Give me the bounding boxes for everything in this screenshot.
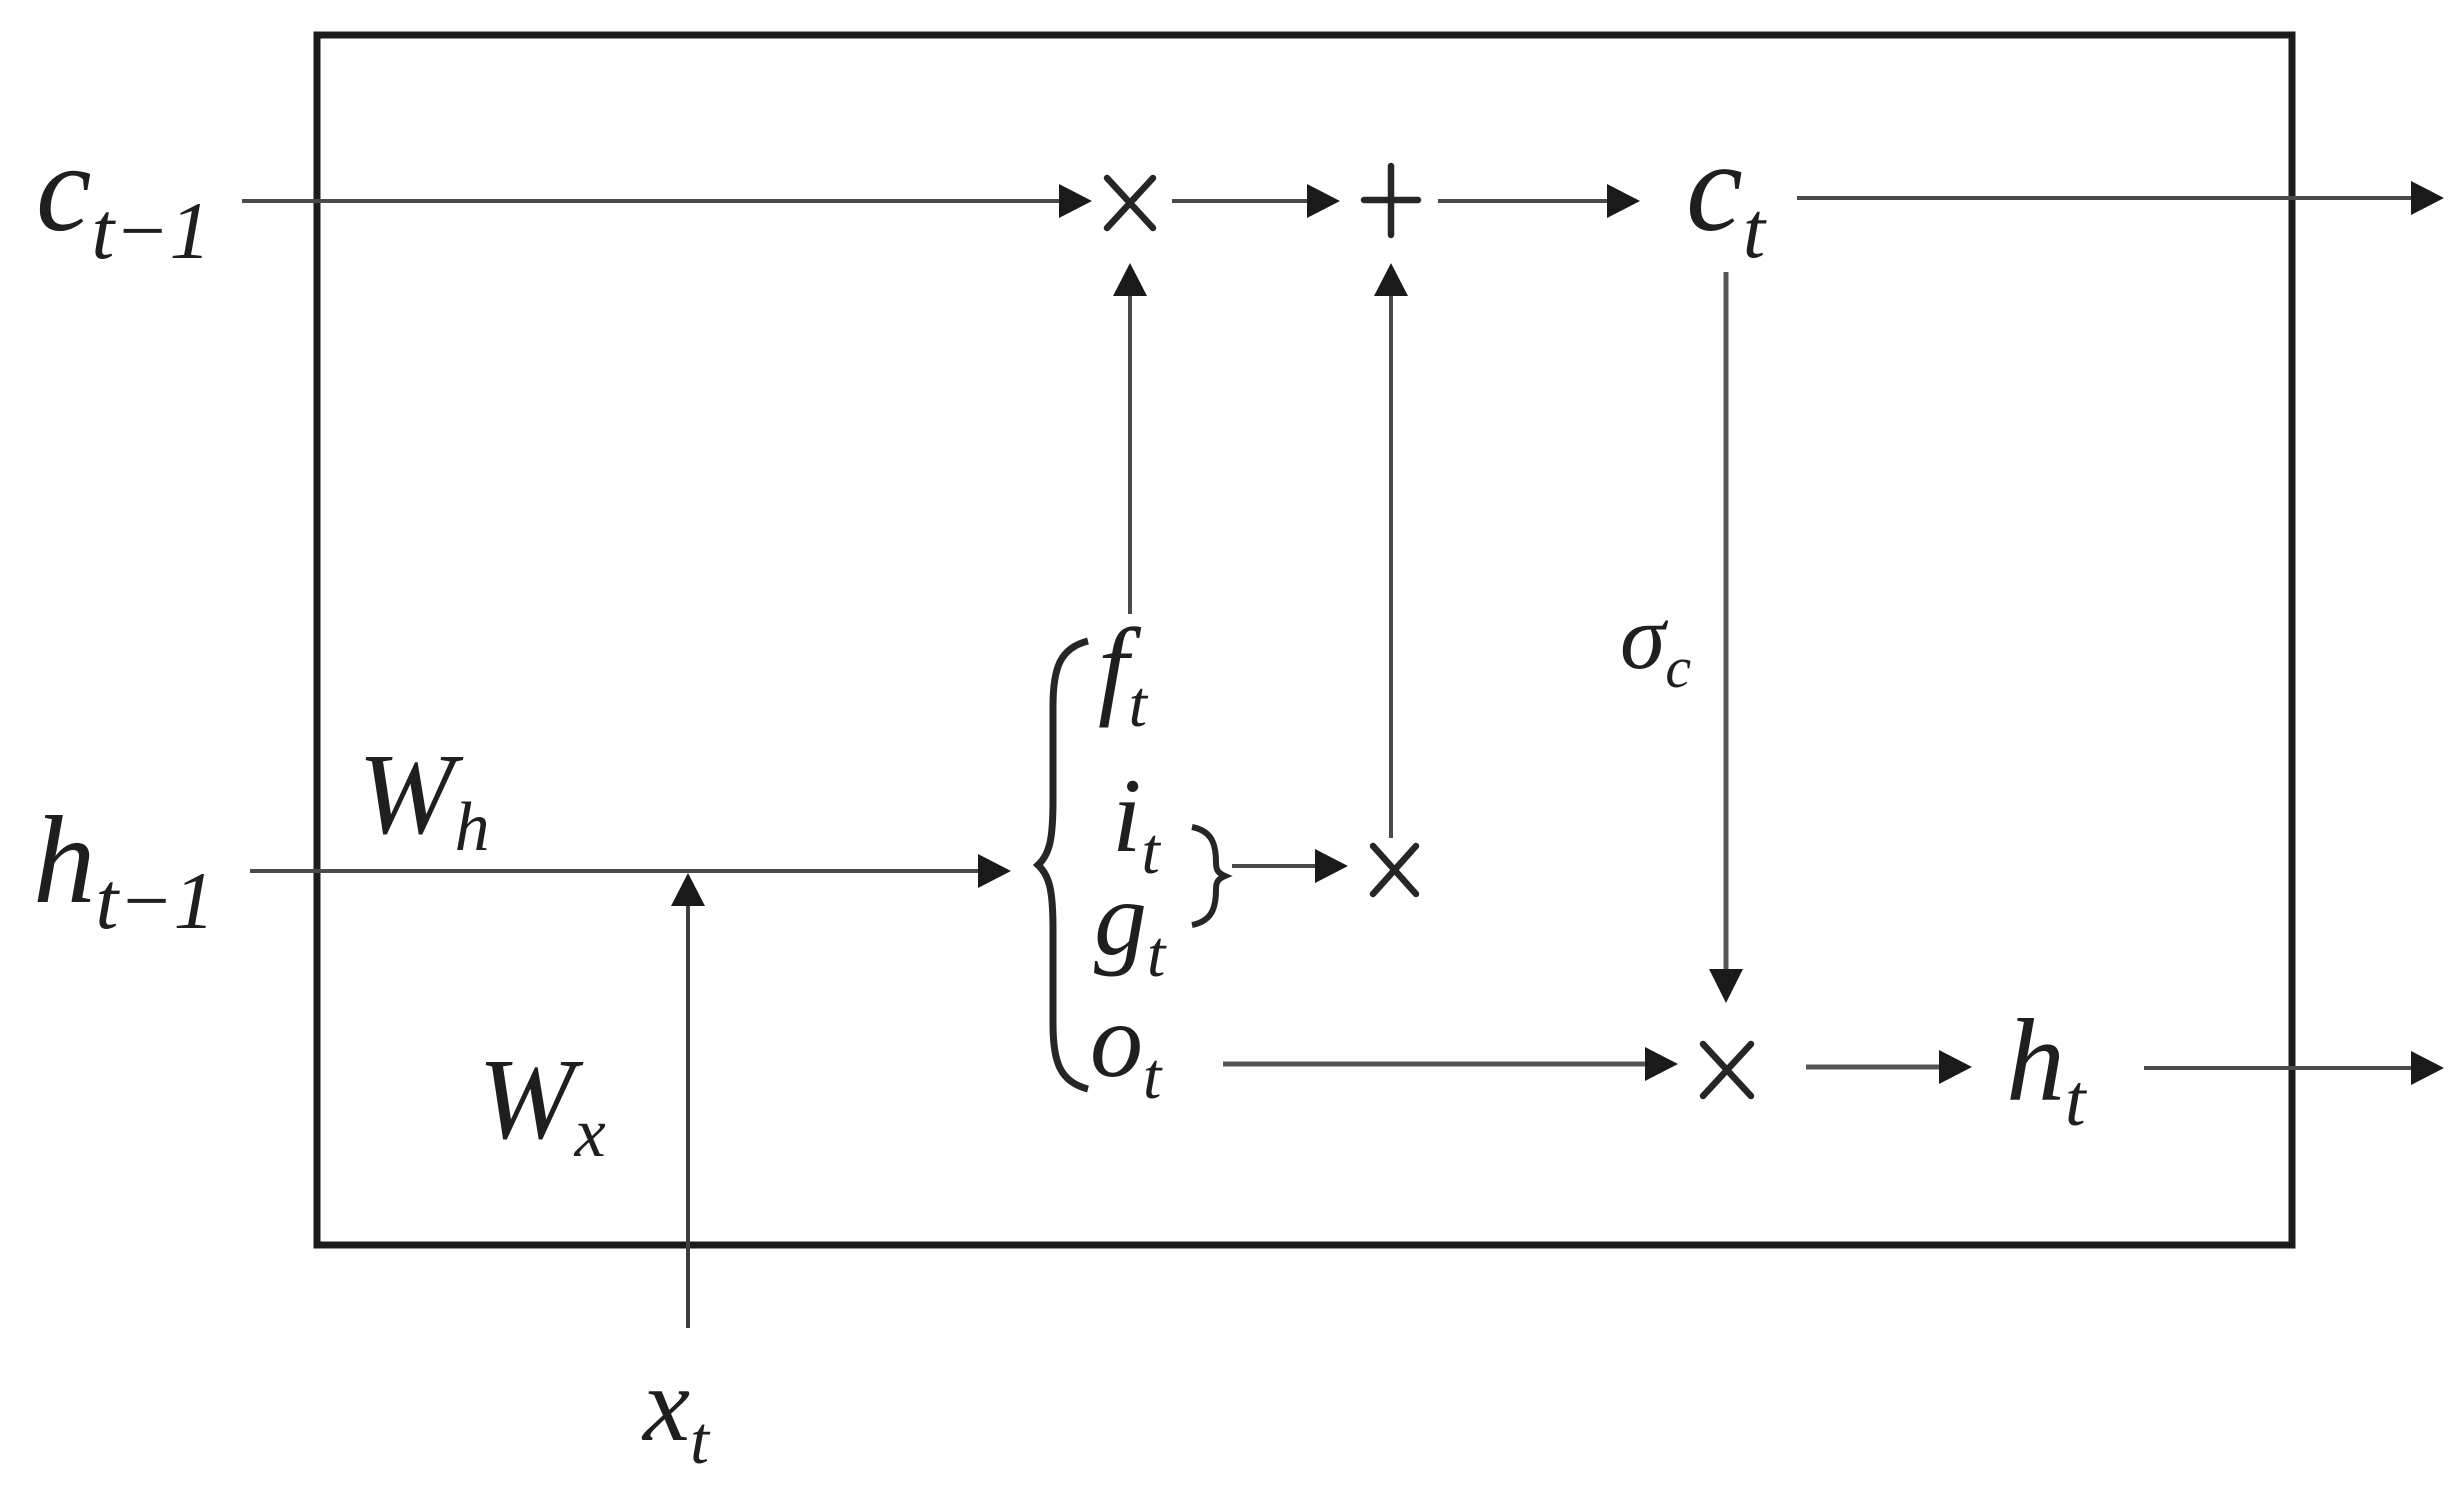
wire h_t to output (exits box right)	[2144, 1051, 2444, 1085]
multiply node (forget gate)	[1107, 178, 1153, 228]
label o_t	[1090, 982, 1163, 1113]
brace right small (i_t selection)	[1192, 827, 1225, 925]
wire brace to multiply (middle)	[1232, 849, 1348, 883]
plus node (cell update)	[1364, 166, 1418, 235]
wire x_t up-arrow into h-line	[671, 873, 705, 1328]
label W_h	[358, 731, 490, 866]
wire multiply to h_t	[1806, 1050, 1972, 1084]
wire plus to c_t	[1438, 184, 1640, 218]
label g_t	[1094, 860, 1167, 991]
wire c_t to output (exits box right)	[1797, 181, 2444, 215]
wire o_t to multiply (output)	[1223, 1047, 1678, 1081]
multiply node (output gate)	[1703, 1044, 1751, 1096]
label W_x	[478, 1036, 606, 1172]
LSTM cell box	[317, 35, 2292, 1245]
wire c-line from c_{t-1} into box	[242, 184, 1092, 218]
node h_{t-1} label	[33, 792, 215, 946]
brace left (gate vector)	[1038, 641, 1088, 1089]
node c_{t-1} label	[36, 120, 211, 276]
node x_t label	[641, 1346, 711, 1478]
wire i_t*g_t up-arrow into plus	[1374, 263, 1408, 838]
label sigma_c	[1620, 586, 1691, 700]
wire h-line from h_{t-1} into brace	[250, 854, 1011, 888]
wire multiply to plus	[1172, 184, 1340, 218]
wire f_t up-arrow into multiply	[1113, 263, 1147, 614]
wire sigma_c down-arrow from c_t to multiply	[1709, 272, 1743, 1003]
multiply node (input gate)	[1373, 846, 1416, 894]
label f_t	[1098, 606, 1149, 741]
node h_t label	[2006, 995, 2088, 1142]
node c_t label	[1686, 116, 1767, 275]
label i_t	[1112, 757, 1161, 888]
